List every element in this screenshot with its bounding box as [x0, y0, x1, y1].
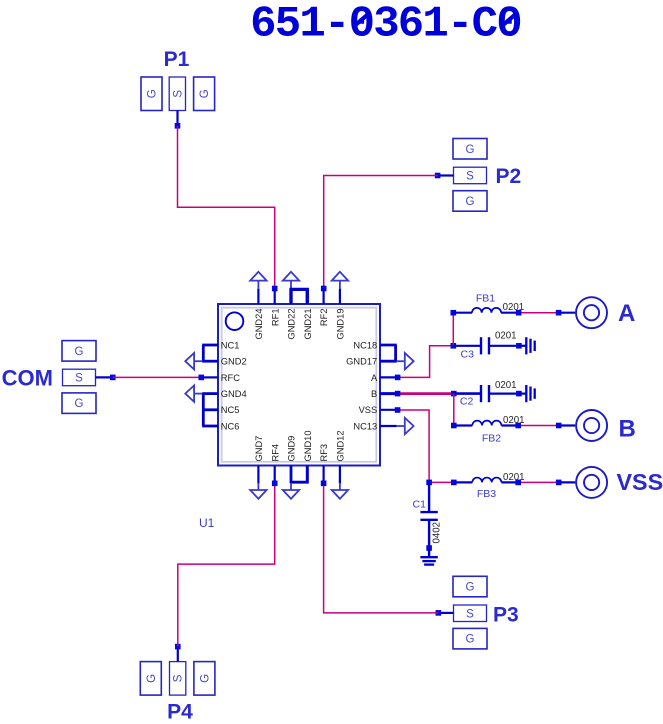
junction net B	[451, 391, 457, 397]
wire net B vertical	[453, 394, 455, 426]
svg-text:G: G	[199, 89, 211, 98]
wire FB3 left lead	[454, 481, 473, 483]
capacitor C2	[480, 385, 482, 402]
antenna arrow GND24	[257, 282, 259, 290]
wire C2 left lead	[454, 392, 481, 395]
pin RFC	[202, 376, 218, 378]
svg-text:NC6: NC6	[221, 421, 240, 431]
pin GND12	[339, 466, 341, 484]
ground C2	[525, 385, 527, 402]
op-amp U1 body	[218, 304, 380, 466]
svg-text:G: G	[75, 398, 84, 410]
ferrite bead FB3	[472, 478, 501, 483]
pin B	[380, 392, 398, 395]
wire VSS junction to FB3	[429, 481, 454, 483]
junction RF2	[321, 286, 327, 292]
svg-text:GND4: GND4	[221, 389, 247, 399]
junction P3	[436, 610, 442, 616]
pin GND17	[380, 360, 397, 363]
svg-text:G: G	[199, 674, 211, 683]
wire FB2 to pad B	[518, 425, 559, 427]
antenna arrow GND17	[397, 360, 405, 362]
ground C1	[420, 556, 437, 558]
junction B	[395, 391, 401, 397]
pin VSS	[380, 409, 398, 411]
pin GND19	[339, 289, 341, 304]
svg-text:NC5: NC5	[221, 405, 240, 415]
wire C3 left lead	[453, 345, 481, 347]
pin GND21	[306, 289, 309, 304]
pin GND4	[202, 392, 218, 395]
svg-text:GND17: GND17	[346, 357, 377, 367]
junction FB3 right	[515, 480, 521, 486]
junction RFC	[199, 375, 205, 381]
antenna arrow GND9	[290, 483, 292, 490]
connector P4 pad S	[170, 662, 186, 696]
wire net A vertical	[452, 313, 454, 346]
svg-text:FB3: FB3	[477, 488, 496, 500]
wire NC1-GND2 bridge	[202, 345, 205, 361]
wire GND4-NC5-NC6 bridge	[202, 394, 205, 426]
wire pad VSS lead	[559, 481, 576, 483]
connector COM pad G1	[62, 341, 96, 362]
antenna arrow GND4	[195, 393, 203, 395]
svg-text:GND19: GND19	[336, 309, 346, 340]
junction C3 ground	[516, 343, 522, 349]
svg-text:P1: P1	[164, 48, 190, 71]
svg-text:FB1: FB1	[476, 293, 495, 305]
wire C1 bottom lead	[428, 521, 430, 548]
wire FB3 to pad VSS	[518, 481, 559, 483]
wire GND9-GND10 bridge	[291, 467, 307, 483]
svg-text:0402: 0402	[432, 522, 443, 544]
junction C1 ground	[426, 545, 432, 551]
svg-text:S: S	[466, 171, 474, 183]
connector P1 pad G2	[194, 77, 215, 111]
pin P2-S	[438, 174, 454, 176]
pin RF2	[323, 289, 325, 304]
wire FB1 to pad A	[519, 312, 559, 314]
antenna arrow GND2	[195, 360, 203, 362]
junction RF1	[272, 286, 278, 292]
ferrite bead FB1	[472, 308, 501, 313]
junction P4	[175, 644, 181, 650]
svg-text:RF4: RF4	[270, 444, 280, 462]
wire FB1 right lead	[501, 312, 518, 314]
wire FB1 left lead	[453, 312, 472, 314]
pin COM-S	[96, 376, 113, 378]
pin A	[380, 376, 398, 378]
svg-text:0201: 0201	[495, 380, 517, 391]
connector COM pad S	[63, 369, 96, 386]
pad B	[576, 410, 607, 441]
svg-text:B: B	[619, 415, 636, 442]
wire RF4 to P4	[178, 483, 275, 646]
pin NC5	[202, 408, 218, 411]
pin GND7	[257, 466, 259, 484]
junction P1	[175, 123, 181, 129]
junction C2 ground	[516, 391, 522, 397]
junction A	[395, 375, 401, 381]
connector P3 pad S	[454, 605, 487, 622]
pin RF1	[274, 289, 276, 304]
svg-text:NC1: NC1	[221, 340, 240, 350]
svg-text:G: G	[466, 144, 475, 156]
wire RF3 to P3	[324, 483, 439, 613]
svg-text:VSS: VSS	[359, 405, 378, 415]
svg-text:GND12: GND12	[336, 430, 346, 461]
wire C3 ground lead	[519, 345, 526, 347]
wire C3 right lead	[489, 345, 519, 347]
svg-text:A: A	[618, 300, 635, 327]
svg-text:G: G	[75, 346, 84, 358]
svg-text:S: S	[466, 608, 474, 620]
svg-text:GND24: GND24	[254, 309, 264, 340]
wire pad B lead	[559, 424, 576, 426]
wire C2 right lead	[489, 393, 519, 395]
svg-text:G: G	[146, 674, 158, 683]
pin GND24	[257, 289, 259, 304]
pin GND2	[202, 360, 218, 363]
svg-text:RF2: RF2	[319, 309, 329, 327]
svg-text:651-0361-C0: 651-0361-C0	[250, 0, 521, 50]
pin NC13	[380, 425, 397, 427]
junction FB1 right	[516, 310, 522, 316]
pin RF3	[323, 466, 325, 484]
svg-text:VSS: VSS	[617, 469, 663, 495]
antenna arrow GND19	[339, 282, 341, 290]
pin NC6	[202, 425, 218, 428]
wire COM to RFC	[113, 376, 202, 378]
pad VSS	[576, 467, 607, 498]
svg-text:GND7: GND7	[254, 436, 264, 462]
wire B pin to net B	[398, 392, 454, 395]
svg-text:0201: 0201	[503, 302, 525, 313]
svg-text:U1: U1	[199, 516, 215, 530]
svg-text:RF3: RF3	[319, 444, 329, 462]
svg-text:RFC: RFC	[221, 373, 240, 383]
junction RF3	[321, 481, 327, 487]
antenna arrow NC13	[397, 425, 405, 427]
svg-text:GND9: GND9	[287, 436, 297, 462]
wire C2 ground lead	[519, 393, 526, 395]
svg-text:GND10: GND10	[303, 430, 313, 461]
svg-text:C3: C3	[461, 349, 475, 361]
svg-text:C1: C1	[413, 499, 427, 511]
svg-text:NC13: NC13	[353, 421, 377, 431]
wire VSS pin down	[398, 410, 430, 482]
ferrite bead FB2	[472, 421, 501, 426]
svg-text:G: G	[466, 196, 475, 208]
wire FB2 right lead	[501, 424, 518, 426]
pin GND9	[290, 466, 293, 484]
capacitor C3	[480, 337, 482, 354]
svg-text:S: S	[173, 674, 185, 682]
svg-text:B: B	[371, 389, 377, 399]
pin GND22	[289, 289, 292, 304]
connector P2 pad S	[454, 167, 487, 184]
wire C1 ground lead	[428, 548, 430, 557]
connector P3 pad G2	[453, 628, 487, 649]
junction COM	[110, 375, 116, 381]
svg-text:0201: 0201	[503, 415, 525, 426]
connector P2 pad G2	[453, 191, 487, 212]
wire A pin to net A	[398, 346, 454, 378]
pin GND10	[306, 466, 309, 484]
junction pad A left	[556, 310, 562, 316]
svg-text:G: G	[466, 582, 475, 594]
connector P4 pad G2	[194, 662, 215, 696]
wire FB2 left lead	[454, 424, 473, 426]
svg-text:GND21: GND21	[303, 309, 313, 340]
wire GND22-GND21 bridge	[291, 289, 307, 303]
junction RF4	[272, 481, 278, 487]
wire FB3 right lead	[501, 481, 518, 483]
junction VSS	[395, 407, 401, 413]
wire P1 to RF1	[178, 126, 275, 289]
wire pad A lead	[559, 312, 576, 314]
connector P4 pad G1	[140, 662, 161, 696]
svg-text:RF1: RF1	[270, 309, 280, 327]
junction net A corner	[451, 343, 457, 349]
capacitor C1	[420, 511, 437, 513]
connector COM pad G2	[62, 393, 96, 414]
svg-text:S: S	[75, 373, 83, 385]
connector P3 pad G1	[453, 576, 487, 597]
connector P2 pad G1	[453, 139, 487, 160]
svg-text:GND22: GND22	[287, 309, 297, 340]
wire NC18-GND17 bridge	[394, 345, 397, 361]
svg-text:COM: COM	[2, 365, 53, 390]
junction pad B left	[556, 423, 562, 429]
svg-text:G: G	[147, 89, 159, 98]
svg-text:0201: 0201	[503, 472, 525, 483]
pin NC1	[202, 344, 218, 347]
junction FB3 left	[451, 480, 457, 486]
wire P2 to RF2	[324, 176, 438, 289]
junction P2	[435, 173, 441, 179]
antenna arrow GND22	[290, 282, 292, 290]
svg-text:P4: P4	[167, 701, 193, 724]
junction FB2 right	[515, 423, 521, 429]
svg-text:P3: P3	[493, 603, 519, 626]
junction FB2 left	[451, 423, 457, 429]
svg-text:P2: P2	[496, 165, 522, 188]
junction FB1 left	[451, 310, 457, 316]
connector P1 pad S	[169, 77, 185, 111]
U1 pin1 indicator circle	[226, 312, 244, 330]
antenna arrow GND7	[257, 483, 259, 490]
pad A	[576, 297, 607, 328]
junction VSS corner	[426, 480, 432, 486]
antenna arrow GND12	[339, 483, 341, 490]
svg-text:A: A	[371, 373, 378, 383]
wire C1 top lead	[428, 482, 430, 511]
svg-text:C2: C2	[460, 396, 474, 408]
pin RF4	[274, 466, 276, 484]
pin P1-S	[176, 111, 178, 126]
svg-text:FB2: FB2	[482, 433, 501, 445]
pin NC18	[380, 344, 397, 347]
svg-text:NC18: NC18	[353, 340, 377, 350]
svg-text:G: G	[466, 634, 475, 646]
connector P1 pad G1	[141, 77, 162, 111]
junction pad VSS left	[556, 480, 562, 486]
pin P3-S	[438, 612, 453, 614]
ground C3	[525, 337, 527, 354]
svg-text:0201: 0201	[495, 331, 517, 342]
pin P4-S	[177, 647, 179, 662]
svg-text:GND2: GND2	[221, 357, 247, 367]
svg-text:S: S	[172, 90, 184, 98]
